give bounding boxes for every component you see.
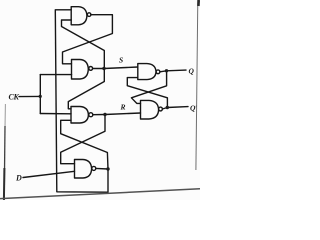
- svg-text:R: R: [120, 102, 126, 111]
- svg-text:Q′: Q′: [190, 103, 197, 112]
- svg-text:S: S: [119, 55, 123, 64]
- svg-text:Q: Q: [189, 66, 195, 75]
- svg-text:CK: CK: [9, 92, 20, 101]
- svg-text:D: D: [15, 174, 22, 183]
